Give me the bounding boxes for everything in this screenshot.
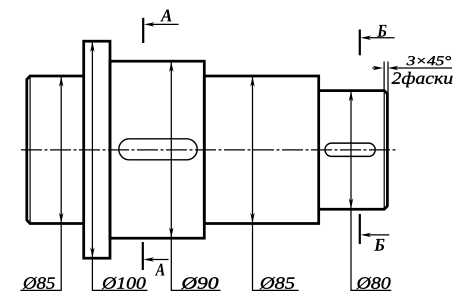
section marker A top: tick, arrow, letter	[143, 10, 178, 44]
dimension line Ø100 flange	[90, 42, 94, 291]
label Ø85 section 1 with underline	[20, 277, 61, 290]
chamfer edge line left end	[29, 76, 31, 224]
label Ø90 section 3 with underline	[171, 277, 221, 290]
flange Ø100 outline	[84, 41, 110, 258]
label Ø85 section 4 with underline	[252, 277, 299, 290]
dimension line Ø85 section 4	[250, 76, 254, 290]
chamfer dimension line with arrows	[372, 66, 452, 70]
label Ø100 flange with underline	[92, 277, 148, 290]
keyway slot on section 5	[325, 143, 375, 156]
chamfer dimension extension lines	[384, 62, 388, 94]
chamfer note 3x45	[407, 56, 451, 65]
shaft section 5 Ø80 outline with chamfered right end	[319, 91, 388, 210]
section marker B bottom: tick, arrow, letter	[360, 214, 390, 251]
dimension line Ø90 section 3	[169, 62, 173, 291]
shaft section 4 Ø85 outline	[204, 76, 318, 224]
section marker B top: tick, arrow, letter	[360, 25, 395, 55]
centerline (axis, dash-dot)	[21, 149, 397, 151]
shaft section 1 Ø85 outline with chamfered left end	[27, 76, 84, 224]
label Ø80 section 5 with underline	[351, 277, 392, 290]
dimension line Ø80 section 5	[349, 91, 353, 291]
dimension line Ø85 section 1	[59, 76, 63, 290]
shaft section 3 Ø90 outline	[110, 61, 204, 238]
chamfer edge line right end	[383, 91, 385, 210]
keyway slot on section 3	[119, 139, 197, 160]
section marker A bottom: tick, arrow, letter	[143, 242, 169, 276]
chamfer note 2 fasky	[392, 72, 453, 87]
